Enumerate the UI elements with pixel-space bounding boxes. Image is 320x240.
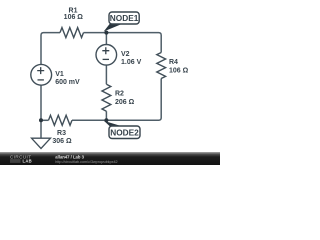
resistor R4 bbox=[157, 53, 166, 79]
resistor R2 bbox=[102, 84, 111, 111]
wire: R4 bottom to bottom-right corner to node2 bbox=[106, 79, 161, 121]
node NODE2 flag tail bbox=[104, 121, 124, 127]
svg-text:106 Ω: 106 Ω bbox=[64, 14, 84, 21]
resistor R1 bbox=[60, 28, 84, 38]
wire: R1 right lead to node1 bbox=[84, 32, 107, 34]
wire: R3 left lead to left junction bbox=[41, 119, 49, 121]
wire: V2 bottom to R2 top bbox=[105, 65, 107, 84]
wire: left junction down to ground bbox=[40, 120, 42, 138]
svg-text:LAB: LAB bbox=[23, 158, 33, 163]
wire: node2 to R3 right lead bbox=[72, 119, 106, 121]
node NODE1 flag tail bbox=[104, 24, 123, 32]
voltage source V2 bbox=[96, 45, 117, 66]
svg-text:306 Ω: 306 Ω bbox=[52, 138, 72, 145]
junction node2 bbox=[104, 118, 108, 122]
svg-text:R2: R2 bbox=[115, 90, 124, 97]
svg-text:NODE1: NODE1 bbox=[110, 13, 139, 23]
node NODE1 box bbox=[109, 12, 139, 24]
node NODE2 box bbox=[109, 126, 140, 139]
junction node1 bbox=[104, 31, 108, 35]
logo lines bbox=[10, 160, 21, 162]
svg-text:600 mV: 600 mV bbox=[55, 79, 80, 86]
watermark bar bbox=[0, 152, 220, 165]
svg-text:206 Ω: 206 Ω bbox=[115, 99, 135, 106]
ground bbox=[32, 138, 51, 148]
voltage source V1 bbox=[31, 64, 52, 85]
wire: node1 to top-right corner down to R4 top bbox=[106, 33, 161, 53]
svg-text:http://circuitlab.com/c/3wpnqv: http://circuitlab.com/c/3wpnqvubkpx42 bbox=[55, 160, 117, 164]
wire left: top-left corner down to V1 top bbox=[41, 33, 60, 65]
svg-text:V1: V1 bbox=[55, 71, 64, 78]
svg-text:R4: R4 bbox=[169, 59, 178, 66]
svg-text:106 Ω: 106 Ω bbox=[169, 68, 189, 75]
wire: V1 bottom down to bottom-left junction bbox=[40, 85, 42, 120]
wire: R2 bottom to node2 bbox=[105, 111, 107, 120]
resistor R3 bbox=[49, 115, 73, 125]
svg-text:R3: R3 bbox=[57, 130, 66, 137]
svg-text:V2: V2 bbox=[121, 51, 130, 58]
wire: node1 down to V2 top bbox=[105, 33, 107, 45]
svg-text:1.06 V: 1.06 V bbox=[121, 59, 142, 66]
svg-text:NODE2: NODE2 bbox=[110, 127, 139, 137]
junction left bbox=[39, 118, 43, 122]
